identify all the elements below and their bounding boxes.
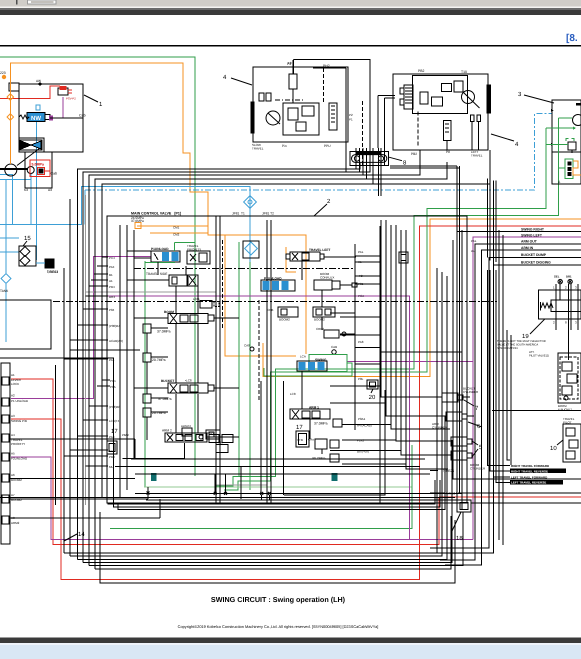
4b cam bar (487, 85, 491, 113)
svg-text:BOOM2: BOOM2 (279, 318, 290, 322)
swing pilot black line (380, 351, 462, 353)
svg-text:Cab: Cab (79, 114, 86, 118)
junction block left (399, 252, 408, 263)
stack feed l (492, 181, 494, 265)
pilot bus line d (95, 162, 447, 569)
stack feed j (486, 179, 488, 258)
boom2 spools (267, 307, 346, 354)
svg-text:PA4: PA4 (109, 265, 115, 269)
svg-text:SWING P/B: SWING P/B (11, 419, 27, 423)
svg-text:& BUCKET: & BUCKET (558, 408, 572, 412)
wire blue pilot solid (31, 173, 250, 224)
4a top wires (293, 60, 370, 168)
junction ticks (147, 492, 271, 495)
svg-text:CRB2: CRB2 (316, 327, 324, 331)
svg-text:Pin: Pin (282, 144, 287, 148)
top dark bar (0, 10, 581, 15)
svg-text:18: 18 (456, 535, 463, 542)
wire purple PC4 (94, 296, 410, 539)
bottom bus line 6 (78, 276, 448, 559)
line below boom bucket box (492, 409, 581, 411)
svg-text:TANK: TANK (0, 289, 9, 293)
travel left spool (286, 248, 356, 261)
MCV inner box lower (115, 225, 465, 500)
svg-text:PB2: PB2 (418, 69, 425, 73)
svg-text:B1: B1 (109, 273, 113, 277)
dash-dot upper (134, 268, 355, 270)
shuttle drop d (366, 148, 368, 179)
boom conflux spool (314, 272, 357, 290)
bottom bus line 3 (118, 416, 445, 510)
shuttle drop e (372, 148, 374, 184)
wire purple A2 to unload (11, 257, 151, 399)
wire green supply loop top (0, 57, 195, 476)
green motor stubs (559, 117, 572, 119)
right rail r4 (496, 270, 510, 482)
long tank horizontal (0, 358, 113, 503)
wire orange right bus (263, 219, 581, 376)
note text (497, 340, 549, 357)
svg-text:PAL: PAL (358, 250, 364, 254)
svg-text:JP81 T2: JP81 T2 (262, 212, 274, 216)
stack wire bucket dump (430, 258, 581, 549)
svg-text:[8.: [8. (566, 33, 578, 44)
arm1 spool (290, 406, 330, 420)
bucket cylinder 7 (442, 387, 479, 413)
pilot bus line e (102, 150, 490, 497)
toolbar separator (16, 0, 17, 5)
regulator servo NW (19, 105, 50, 122)
tank return long (0, 496, 455, 498)
svg-text:LOCK: LOCK (11, 382, 19, 386)
wire gray stub (216, 484, 267, 486)
svg-text:Cab: Cab (51, 172, 58, 176)
svg-text:TRAVEL: TRAVEL (252, 147, 264, 151)
relief 37.0MPa arm (314, 419, 342, 427)
leader 3 (524, 95, 554, 103)
svg-text:PB8: PB8 (109, 455, 115, 459)
staircase vertical s1 (214, 474, 216, 493)
pump inlet small box (9, 83, 19, 91)
wire purple swing left to valve (347, 360, 473, 362)
stack bend d (390, 167, 460, 169)
svg-text:19: 19 (522, 333, 529, 340)
svg-text:20.7MPa: 20.7MPa (152, 358, 166, 362)
wire blue filter lower (249, 207, 251, 262)
bottom bus line 1 (108, 480, 435, 504)
right rail r2 (490, 270, 510, 471)
svg-text:CYLINDER: CYLINDER (463, 390, 479, 394)
P2 unload spool (261, 277, 295, 292)
left feeder lines (54, 365, 56, 505)
bottom bus line 10 (100, 512, 455, 583)
shuttle drop c (362, 148, 364, 175)
dash vertical a (222, 240, 224, 330)
svg-text:RIGHT TRAVEL FORWARD: RIGHT TRAVEL FORWARD (511, 464, 550, 468)
toolbar button (28, 0, 57, 4)
main pump circle (5, 164, 17, 176)
svg-text:RIGHT TRAVEL REVERSE: RIGHT TRAVEL REVERSE (511, 469, 548, 473)
wire blue lower left diamond (5, 284, 7, 342)
right pilot label stack (521, 228, 551, 265)
stack feed h (456, 166, 458, 500)
tank check diamond (0, 274, 11, 293)
svg-text:CA8: CA8 (244, 344, 250, 348)
staircase vertical s3 (240, 466, 242, 499)
travel priority valve (187, 244, 210, 264)
svg-text:ATT.: ATT. (529, 351, 535, 354)
svg-text:PB4: PB4 (109, 285, 115, 289)
servo piston (20, 140, 42, 150)
wire blue dash drop (84, 190, 86, 224)
port stub lines right rail (127, 251, 406, 464)
relay RE63 (36, 259, 58, 274)
relay 17 (107, 428, 129, 454)
svg-text:BOOM2: BOOM2 (314, 318, 325, 322)
svg-text:BUCKET DUMP: BUCKET DUMP (521, 253, 547, 257)
svg-text:LC8: LC8 (290, 392, 296, 396)
svg-text:P8L: P8L (358, 377, 364, 381)
leader 4a (231, 78, 252, 85)
pilot bus line g (63, 268, 65, 553)
svg-text:B8 (P08): B8 (P08) (357, 450, 369, 454)
port rail labels (358, 239, 477, 421)
svg-text:P8: P8 (446, 150, 450, 154)
right rail r3 (493, 270, 510, 477)
svg-text:PAL: PAL (471, 239, 477, 243)
leader 1 (84, 95, 98, 102)
svg-text:P1UNLOAD: P1UNLOAD (151, 247, 169, 251)
svg-text:F8: F8 (288, 61, 292, 65)
svg-text:LEFT TRAVEL REVERSE: LEFT TRAVEL REVERSE (511, 481, 546, 485)
right rail r1 (487, 270, 510, 466)
svg-text:TRAVEL LEFT: TRAVEL LEFT (309, 248, 330, 252)
wire blue check block b (0, 251, 19, 253)
wire orange vertical to swing spool (225, 235, 296, 356)
svg-text:P1 UNLOAD: P1 UNLOAD (11, 399, 29, 403)
svg-text:15: 15 (24, 235, 31, 242)
4a coils (259, 93, 264, 101)
wire orange mid vertical (286, 247, 296, 272)
wire orange branch CM (137, 225, 208, 227)
stack bend c (390, 165, 457, 167)
svg-text:(P80)B4: (P80)B4 (109, 324, 120, 328)
aux block mid (296, 424, 309, 447)
relief 20.7MPa lower (143, 408, 166, 417)
orange source dot (2, 75, 6, 79)
pilot bus line b (83, 163, 370, 563)
pilot valve box 4a (253, 67, 348, 142)
pilot bus line c (89, 150, 420, 566)
viewer toolbar strip (0, 0, 581, 6)
relief 20.7MPa upper (143, 353, 166, 362)
svg-text:SEL: SEL (554, 275, 560, 279)
att pilot valve box (558, 353, 581, 412)
svg-text:LCB(T4): LCB(T4) (109, 419, 120, 423)
leader 4b (491, 134, 514, 141)
svg-text:TRAVEL: TRAVEL (471, 154, 483, 158)
svg-text:A6: A6 (11, 473, 15, 477)
wire blue re63 drop (5, 179, 7, 273)
wire green motor line B (216, 176, 559, 486)
right rail r6 (502, 235, 504, 545)
4b coils (471, 115, 475, 121)
travel labels right (510, 464, 566, 485)
right rail r5 (498, 230, 500, 540)
svg-text:37.0MPa: 37.0MPa (157, 330, 171, 334)
orange check diamond a (7, 94, 14, 101)
svg-text:P8A1: P8A1 (358, 417, 366, 421)
svg-text:CM1: CM1 (173, 226, 180, 230)
wire purple pump solenoid (51, 97, 63, 118)
swing section (297, 355, 347, 372)
pilot valve box 4b (393, 74, 488, 150)
orange feed vertical (9, 63, 11, 164)
svg-text:CAB: CAB (331, 345, 337, 349)
relief 5.0MPa (30, 160, 57, 177)
wire cab line (50, 117, 83, 119)
svg-text:⎋RE63: ⎋RE63 (47, 270, 58, 274)
CRo valve (308, 438, 339, 450)
multi selector valve 19 (522, 275, 581, 361)
boom cylinders 5 (451, 437, 486, 471)
stack wire arm out (440, 244, 581, 560)
svg-text:T10: T10 (461, 70, 467, 74)
svg-text:K3: K3 (24, 188, 28, 192)
bottom status strip (0, 645, 581, 659)
svg-text:TRAVEL SIDE: TRAVEL SIDE (146, 272, 167, 276)
shuttle drop b (359, 148, 361, 172)
travel pilot valve 10 (550, 417, 581, 462)
wire blue pilot dash (85, 114, 552, 191)
arm2 spool (162, 429, 233, 443)
wire blue left out (0, 223, 31, 225)
svg-text:A1: A1 (109, 279, 113, 283)
dash vertical b (258, 300, 260, 400)
svg-text:PB2: PB2 (411, 152, 417, 156)
shuttle drop a (355, 148, 357, 169)
shuttle drop g (380, 148, 382, 196)
MCV left port stubs (109, 256, 123, 469)
wire red cab left (0, 86, 60, 99)
relief 37.0MPa upper (143, 324, 171, 334)
svg-text:AL: AL (471, 249, 475, 253)
bucket spool (161, 379, 214, 394)
wire green unload drop (144, 261, 146, 487)
staircase vertical s4 (261, 495, 263, 500)
wire blue check block a (0, 237, 19, 239)
4b lower valve (443, 121, 451, 141)
dash-dot main (53, 301, 497, 303)
svg-text:MU: MU (109, 465, 114, 469)
bottom bus line 7 (83, 440, 452, 563)
4a cam bar (251, 102, 254, 133)
aux valves CAP2 (181, 424, 228, 453)
pin drops 19 (507, 330, 510, 460)
bottom bus line 9 (95, 516, 451, 569)
svg-text:A7: A7 (11, 493, 15, 497)
4b left spool (404, 85, 413, 109)
svg-text:PCA: PCA (358, 294, 364, 298)
header rule (0, 45, 581, 46)
svg-text:T40: T40 (218, 441, 223, 445)
svg-text:BUCKET: BUCKET (161, 379, 174, 383)
svg-text:PC4: PC4 (109, 256, 115, 260)
svg-text:A5: A5 (11, 452, 15, 456)
svg-text:ARM2: ARM2 (11, 521, 20, 525)
purple plug (49, 116, 53, 121)
wire green mid rail a (238, 242, 240, 476)
shuttle block 8 (350, 152, 389, 166)
svg-text:17: 17 (296, 424, 303, 431)
wire green mid rail b (249, 242, 251, 490)
wire orange pilot supply top (10, 63, 306, 354)
bottom bus line 4 (64, 268, 437, 553)
pump unit box 1 (19, 84, 83, 152)
stack feed m (495, 181, 497, 263)
4a inner box (283, 103, 319, 135)
svg-text:SWING LEFT: SWING LEFT (521, 234, 543, 238)
svg-text:CRB: CRB (267, 308, 273, 312)
svg-text:ACAB(A4): ACAB(A4) (109, 339, 123, 343)
swing motor box 3 (552, 100, 581, 184)
svg-text:THERE IS NOT THE MULTI SELECTO: THERE IS NOT THE MULTI SELECTOR (497, 340, 546, 343)
orange check diamond b (7, 114, 14, 121)
4b dash vertical (417, 112, 419, 146)
right rails to bottom (453, 240, 581, 479)
svg-text:17: 17 (111, 428, 118, 435)
svg-text:NW: NW (31, 115, 41, 122)
solenoid on green line (151, 473, 157, 481)
svg-text:PSV-P2: PSV-P2 (66, 97, 76, 101)
wire green swing loop (264, 363, 352, 376)
svg-text:PA1: PA1 (109, 358, 115, 362)
top dark bar upper (0, 8, 581, 10)
svg-text:P1: P1 (349, 118, 353, 122)
svg-text:A3: A3 (11, 414, 15, 418)
stack wire bucket digging (435, 265, 581, 553)
svg-text:A3: A3 (48, 188, 52, 192)
svg-text:10: 10 (550, 445, 557, 452)
wire red A1 loop (11, 379, 439, 544)
bottom strip highlight (0, 643, 581, 645)
svg-text:LEFT TRAVEL FORWARD: LEFT TRAVEL FORWARD (511, 475, 548, 479)
svg-text:PRIORITY: PRIORITY (11, 442, 25, 446)
svg-text:JP81 T1: JP81 T1 (232, 212, 245, 216)
wire purple bottom bus (11, 457, 473, 539)
MCV inner rails (215, 216, 217, 503)
pilot bus line f (69, 199, 71, 556)
node AW (38, 82, 41, 85)
svg-text:DR3: DR3 (109, 295, 115, 299)
4b inner frame (413, 75, 468, 113)
svg-text:P2: P2 (349, 113, 353, 117)
staircase vertical s5 (268, 495, 270, 500)
svg-text:LCA: LCA (300, 355, 306, 359)
wire orange branch CM2 (150, 232, 208, 234)
svg-text:A2: A2 (11, 394, 15, 398)
staircase vertical s2 (225, 474, 227, 493)
toolbar highlight line (0, 6, 581, 8)
leader 2 (314, 204, 327, 216)
svg-text:P8A: P8A (110, 385, 116, 389)
svg-text:AW: AW (36, 79, 41, 83)
stack wire arm in (445, 250, 581, 565)
stack feed k (489, 179, 491, 261)
wire green bottom bus (110, 445, 412, 529)
wire blue left edge a (0, 175, 13, 225)
relief 30.7MPa (312, 454, 339, 462)
wire blue filter column (249, 197, 251, 216)
wire red swing right bus (420, 226, 581, 497)
svg-text:(P08)B8: (P08)B8 (109, 405, 120, 409)
svg-text:ARM 2: ARM 2 (162, 429, 172, 433)
blue filter diamond (244, 196, 257, 209)
boom spool (164, 310, 214, 324)
solenoid valve block 14 (1, 363, 160, 544)
svg-text:20.7MPa: 20.7MPa (152, 411, 166, 415)
valve LC81 (193, 297, 219, 308)
svg-text:ARM OUT: ARM OUT (521, 240, 538, 244)
svg-text:VTB: VTB (297, 438, 303, 442)
svg-text:AL0AT2: AL0AT2 (181, 424, 191, 428)
svg-text:PA8: PA8 (109, 435, 115, 439)
4a handle circle (266, 111, 280, 125)
svg-text:PILOT VALVE(2): PILOT VALVE(2) (529, 354, 549, 357)
svg-text:Copyright©2019 Kobelco Constru: Copyright©2019 Kobelco Construction Mach… (178, 624, 379, 629)
svg-text:LC81: LC81 (193, 297, 200, 301)
wire green motor line A (224, 128, 546, 490)
svg-text:SPECIFICATION.: SPECIFICATION. (497, 347, 518, 350)
left stub lines (102, 256, 108, 258)
svg-text:P8A2: P8A2 (122, 433, 129, 437)
svg-text:PC1: PC1 (110, 379, 116, 383)
pump lower box (25, 152, 52, 188)
pilot pump circle (27, 167, 34, 174)
check valve block 15 (19, 235, 36, 266)
wire blue tank branch (0, 178, 31, 180)
arm cylinder 6 (432, 412, 482, 430)
svg-text:P2UNLOAD: P2UNLOAD (11, 457, 28, 461)
pilot bus line a (78, 163, 361, 559)
bottom bus line 8 (89, 512, 463, 566)
solenoid PSV-P2 (58, 86, 76, 101)
svg-text:A4: A4 (11, 433, 15, 437)
svg-text:BUCKET DIGGING: BUCKET DIGGING (521, 260, 551, 264)
svg-text:•LC8: •LC8 (185, 379, 192, 383)
bottom bus line 5 (70, 272, 442, 556)
svg-text:CM2: CM2 (173, 233, 180, 237)
wire gray dr3 (86, 291, 217, 293)
main control valve box 2 (107, 216, 467, 503)
wire blue regulator drop (35, 121, 37, 260)
bottom bus line 2 (113, 480, 440, 507)
svg-text:20: 20 (369, 394, 376, 401)
svg-text:14: 14 (78, 531, 85, 538)
svg-text:DR1: DR1 (566, 275, 572, 279)
suction box (0, 300, 51, 349)
marker 20 (367, 380, 378, 401)
svg-text:A4 (ACAB): A4 (ACAB) (357, 424, 372, 428)
bottom dark bar (0, 638, 581, 644)
svg-text:5.0MPa: 5.0MPa (32, 163, 45, 167)
svg-text:VALVE AT THE SOUTH AMERICA: VALVE AT THE SOUTH AMERICA (497, 344, 538, 347)
svg-text:37.0MPa: 37.0MPa (314, 422, 328, 426)
shuttle drop f (377, 148, 379, 196)
wire red A3 loop (11, 419, 420, 579)
stack wire swing right (457, 230, 581, 232)
relief 37.0MPa lower (143, 394, 172, 403)
